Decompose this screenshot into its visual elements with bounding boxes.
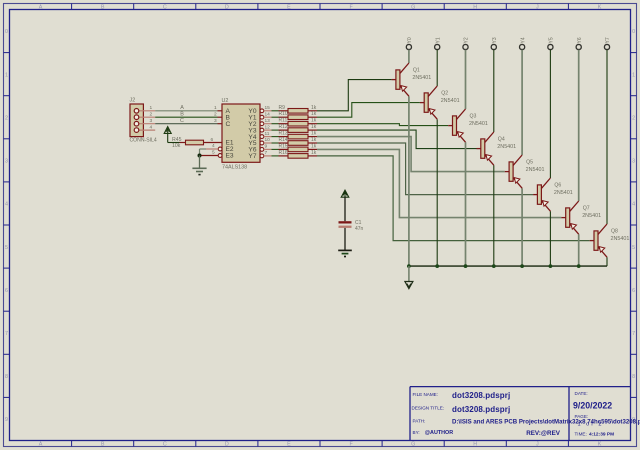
- svg-text:J: J: [536, 442, 539, 448]
- resistor R13 1k: [279, 131, 318, 139]
- node terminal Y7: [604, 37, 611, 49]
- svg-text:8: 8: [632, 374, 635, 380]
- svg-text:10: 10: [265, 137, 271, 143]
- svg-text:PAGE:: PAGE:: [575, 414, 589, 419]
- svg-text:C1: C1: [355, 220, 362, 226]
- svg-text:G: G: [411, 5, 415, 11]
- svg-text:J: J: [536, 5, 539, 11]
- svg-text:6: 6: [632, 288, 635, 294]
- svg-text:A: A: [39, 5, 43, 11]
- svg-text:D: D: [225, 5, 229, 11]
- svg-text:14: 14: [265, 111, 271, 117]
- transistor Q7 2N5401: [561, 201, 601, 234]
- svg-text:6: 6: [211, 137, 214, 143]
- svg-text:8: 8: [5, 374, 8, 380]
- svg-text:1k: 1k: [311, 105, 317, 111]
- svg-text:15: 15: [265, 105, 271, 111]
- svg-text:PATH:: PATH:: [413, 419, 426, 424]
- svg-text:R14: R14: [279, 137, 288, 143]
- svg-text:3: 3: [5, 159, 8, 165]
- svg-text:K: K: [598, 5, 602, 11]
- node terminal Y5: [548, 37, 555, 49]
- svg-text:E: E: [287, 5, 291, 11]
- svg-text:1: 1: [5, 72, 8, 78]
- node terminal Y6: [576, 37, 583, 49]
- svg-text:Y4: Y4: [520, 37, 526, 43]
- svg-text:Y3: Y3: [492, 37, 498, 43]
- transistor Q3 2N5401: [448, 109, 488, 142]
- svg-text:R12: R12: [279, 124, 288, 130]
- ground symbol below C1: [338, 250, 352, 256]
- svg-text:3: 3: [632, 159, 635, 165]
- node terminal Y4: [520, 37, 527, 49]
- svg-text:6: 6: [5, 288, 8, 294]
- svg-text:4: 4: [632, 202, 635, 208]
- resistor R15 1k: [279, 143, 318, 151]
- svg-text:R15: R15: [279, 143, 288, 149]
- svg-text:1k: 1k: [311, 143, 317, 149]
- wire terminal Y5 to Q6 collector: [549, 50, 551, 178]
- power symbol (+V arrow) at C1: [341, 190, 349, 197]
- svg-text:2N5401: 2N5401: [554, 190, 573, 196]
- svg-text:Y7: Y7: [248, 153, 256, 160]
- resistor R14 1k: [279, 137, 318, 145]
- svg-text:2: 2: [5, 116, 8, 122]
- svg-text:10k: 10k: [172, 143, 181, 149]
- svg-text:G: G: [411, 442, 415, 448]
- resistor R9 1k: [279, 105, 318, 113]
- svg-text:1 of 2: 1 of 2: [578, 422, 604, 428]
- resistor R10 1k: [279, 111, 318, 119]
- svg-text:TIME:: TIME:: [575, 431, 587, 436]
- svg-text:R11: R11: [279, 118, 288, 124]
- svg-text:9: 9: [265, 144, 268, 150]
- svg-text:A: A: [180, 105, 184, 111]
- wire terminal Y2 to Q3 collector: [465, 50, 467, 109]
- svg-text:B: B: [101, 442, 105, 448]
- ground arrow symbol: [405, 282, 413, 289]
- svg-text:2N5401: 2N5401: [526, 167, 545, 173]
- svg-text:Y2: Y2: [464, 37, 470, 43]
- svg-text:dot3208.pdsprj: dot3208.pdsprj: [452, 391, 510, 400]
- svg-text:2N5401: 2N5401: [469, 121, 488, 127]
- svg-text:R10: R10: [279, 111, 288, 117]
- svg-text:1k: 1k: [311, 150, 317, 156]
- node bus junction at Y1 column: [435, 264, 439, 268]
- svg-text:2: 2: [214, 111, 217, 117]
- wire ground bus: [409, 265, 607, 267]
- svg-text:FILE NAME:: FILE NAME:: [413, 392, 439, 397]
- wire Q6 emitter to ground bus: [549, 211, 551, 266]
- transistor Q1 2N5401: [392, 63, 432, 96]
- U2 output pin Y4 (pin 11) bubble and stub: [260, 131, 279, 139]
- svg-text:U2: U2: [222, 98, 229, 104]
- node terminal Y3: [491, 37, 498, 49]
- title block frame: [410, 387, 631, 441]
- transistor Q4 2N5401: [477, 132, 517, 165]
- svg-text:Q7: Q7: [583, 206, 590, 212]
- wire Q8 emitter to ground bus: [606, 257, 608, 266]
- svg-text:1k: 1k: [311, 124, 317, 130]
- U2 enable pin E2 (pin 4) bubble and wire: [200, 143, 223, 151]
- wire bus to ground arrow: [408, 266, 410, 281]
- svg-text:1: 1: [214, 105, 217, 111]
- svg-text:7: 7: [265, 150, 268, 156]
- svg-text:R9: R9: [279, 105, 286, 111]
- node junction E2/E3: [198, 154, 202, 158]
- svg-text:E3: E3: [226, 153, 234, 160]
- svg-text:Y0: Y0: [407, 37, 413, 43]
- svg-text:1k: 1k: [311, 118, 317, 124]
- svg-text:Y5: Y5: [549, 37, 555, 43]
- svg-text:74ALS138: 74ALS138: [222, 165, 247, 171]
- svg-text:0: 0: [632, 29, 635, 35]
- wire Y5 net: R14 to Q6 base: [317, 143, 533, 195]
- svg-text:3: 3: [214, 118, 217, 124]
- svg-text:D:\ISIS and ARES PCB Projects\: D:\ISIS and ARES PCB Projects\dotMatrix3…: [452, 418, 640, 425]
- svg-text:B: B: [101, 5, 105, 11]
- node bus junction at Y6 column: [577, 264, 581, 268]
- svg-text:DATE:: DATE:: [575, 391, 588, 396]
- capacitor C1 47n: [339, 220, 364, 232]
- wire terminal Y4 to Q5 collector: [521, 50, 523, 155]
- svg-text:C: C: [180, 118, 184, 124]
- ruler row ticks left/right: [4, 53, 637, 398]
- svg-text:7: 7: [632, 331, 635, 337]
- svg-text:Q5: Q5: [526, 160, 533, 166]
- wire terminal Y6 to Q7 collector: [578, 50, 580, 201]
- svg-text:2N5401: 2N5401: [582, 213, 601, 219]
- node bus junction at Y3 column: [492, 264, 496, 268]
- svg-text:5: 5: [632, 245, 635, 251]
- wire net B (J2 pin 2 to U2.B): [155, 111, 222, 117]
- svg-text:Q8: Q8: [611, 229, 618, 235]
- svg-text:BY:: BY:: [413, 430, 420, 435]
- power symbol (+V arrow) at R45: [164, 127, 171, 143]
- wire Q5 emitter to ground bus: [521, 188, 523, 266]
- svg-text:CONN-SIL4: CONN-SIL4: [130, 138, 157, 144]
- U2 output pin Y5 (pin 10) bubble and stub: [260, 137, 279, 145]
- ground symbol below U2 enables: [192, 168, 206, 174]
- svg-text:0: 0: [5, 29, 8, 35]
- transistor Q6 2N5401: [533, 178, 573, 211]
- wire Q4 emitter to ground bus: [493, 165, 495, 266]
- svg-text:R13: R13: [279, 131, 288, 137]
- svg-text:Y6: Y6: [577, 37, 583, 43]
- svg-text:4: 4: [5, 202, 8, 208]
- svg-text:2: 2: [150, 111, 153, 117]
- connector J2 CONN-SIL4: [130, 98, 157, 144]
- svg-text:7: 7: [5, 331, 8, 337]
- wire terminal Y1 to Q2 collector: [436, 50, 438, 86]
- svg-text:Q2: Q2: [441, 91, 448, 97]
- svg-text:2N5401: 2N5401: [412, 75, 431, 81]
- svg-text:Y7: Y7: [605, 37, 611, 43]
- svg-text:1k: 1k: [311, 131, 317, 137]
- U2 output pin Y6 (pin 9) bubble and stub: [260, 144, 279, 152]
- wire Y7 net: R16 to Q8 base: [317, 156, 590, 241]
- svg-text:Y1: Y1: [435, 37, 441, 43]
- svg-text:J2: J2: [130, 98, 136, 104]
- wire Q1 emitter to ground bus: [408, 96, 410, 266]
- node terminal Y1: [435, 37, 442, 49]
- resistor R16 1k: [279, 150, 318, 158]
- node bus junction at Y2 column: [464, 264, 468, 268]
- wire terminal Y0 to Q1 collector: [408, 50, 410, 63]
- U2 output pin Y3 (pin 12) bubble and stub: [260, 124, 279, 132]
- svg-text:Q6: Q6: [554, 183, 561, 189]
- wire power to C1: [344, 197, 346, 221]
- svg-text:K: K: [598, 442, 602, 448]
- svg-text:2: 2: [632, 116, 635, 122]
- wire Y1 net: R10 to Q2 base: [317, 103, 420, 118]
- U2 output pin Y1 (pin 14) bubble and stub: [260, 111, 279, 119]
- svg-text:D: D: [225, 442, 229, 448]
- title block texts: [412, 391, 640, 437]
- node terminal Y0: [406, 37, 413, 49]
- svg-text:H: H: [473, 442, 477, 448]
- svg-text:1k: 1k: [311, 137, 317, 143]
- resistor R12 1k: [279, 124, 318, 132]
- wire E2 to E3 junction: [199, 149, 201, 156]
- svg-text:@AUTHOR: @AUTHOR: [425, 430, 453, 436]
- wire Y6 net: R15 to Q7 base: [317, 149, 561, 217]
- U2 output pin Y0 (pin 15) bubble and stub: [260, 105, 279, 113]
- svg-text:Q1: Q1: [413, 68, 420, 74]
- svg-text:R16: R16: [279, 150, 288, 156]
- U2 output pin Y2 (pin 13) bubble and stub: [260, 118, 279, 126]
- ruler column ticks top/bottom: [72, 4, 569, 447]
- svg-text:4:12:39 PM: 4:12:39 PM: [589, 431, 614, 437]
- svg-text:5: 5: [5, 245, 8, 251]
- svg-text:5: 5: [212, 150, 215, 156]
- svg-text:C: C: [226, 121, 231, 128]
- op IC U2 74ALS138 body: [222, 98, 261, 171]
- svg-text:DESIGN TITLE:: DESIGN TITLE:: [412, 406, 445, 411]
- node terminal Y2: [463, 37, 470, 49]
- svg-text:B: B: [180, 111, 184, 117]
- svg-text:47n: 47n: [355, 226, 364, 232]
- svg-text:C: C: [163, 442, 167, 448]
- wire power to R45: [168, 142, 180, 144]
- svg-text:Q3: Q3: [470, 114, 477, 120]
- svg-text:1: 1: [150, 105, 153, 111]
- svg-text:C: C: [163, 5, 167, 11]
- svg-text:11: 11: [265, 131, 270, 137]
- wire terminal Y3 to Q4 collector: [493, 50, 495, 132]
- wire Y3 net: R12 to Q4 base: [317, 130, 477, 149]
- svg-text:REV:@REV: REV:@REV: [526, 430, 561, 437]
- svg-text:1k: 1k: [311, 111, 317, 117]
- resistor R11 1k: [279, 118, 318, 126]
- wire net C (J2 pin 3 to U2.C): [155, 118, 222, 124]
- svg-text:2N5401: 2N5401: [611, 236, 630, 242]
- U2 output pin Y7 (pin 7) bubble and stub: [260, 150, 279, 158]
- svg-text:E: E: [287, 442, 291, 448]
- svg-text:Q4: Q4: [498, 137, 505, 143]
- svg-text:9/20/2022: 9/20/2022: [573, 401, 612, 411]
- wire Y0 net: R9 to Q1 base: [317, 80, 392, 111]
- wire Q2 emitter to ground bus: [436, 119, 438, 266]
- wire Y2 net: R11 to Q3 base: [317, 124, 448, 126]
- svg-text:13: 13: [265, 118, 271, 124]
- wire C1 to ground: [344, 228, 346, 250]
- svg-text:2N5401: 2N5401: [497, 144, 516, 150]
- svg-text:dot3208.pdsprj: dot3208.pdsprj: [452, 405, 510, 414]
- resistor R45 10k: [172, 137, 222, 149]
- wire net A (J2 pin 1 to U2.A): [155, 105, 222, 111]
- svg-text:12: 12: [265, 124, 271, 130]
- svg-text:A: A: [39, 442, 43, 448]
- wire terminal Y7 to Q8 collector: [606, 50, 608, 224]
- node bus junction at Y0 column: [407, 264, 411, 268]
- node bus junction at Y5 column: [549, 264, 553, 268]
- svg-text:4: 4: [212, 143, 215, 149]
- svg-text:2N5401: 2N5401: [441, 98, 460, 104]
- svg-text:4: 4: [150, 124, 153, 130]
- svg-text:1: 1: [632, 72, 635, 78]
- node bus junction at Y4 column: [520, 264, 524, 268]
- transistor Q8 2N5401: [590, 224, 630, 257]
- transistor Q2 2N5401: [420, 86, 460, 119]
- wire Q3 emitter to ground bus: [465, 142, 467, 266]
- wire Y4 net: R13 to Q5 base: [317, 137, 505, 172]
- svg-text:H: H: [473, 5, 477, 11]
- svg-text:3: 3: [150, 118, 153, 124]
- svg-text:9: 9: [5, 417, 8, 423]
- transistor Q5 2N5401: [505, 155, 545, 188]
- U2 enable pin E3 (pin 5) bubble and wire: [200, 150, 223, 158]
- wire junction to ground: [199, 156, 201, 169]
- wire Q7 emitter to ground bus: [578, 234, 580, 266]
